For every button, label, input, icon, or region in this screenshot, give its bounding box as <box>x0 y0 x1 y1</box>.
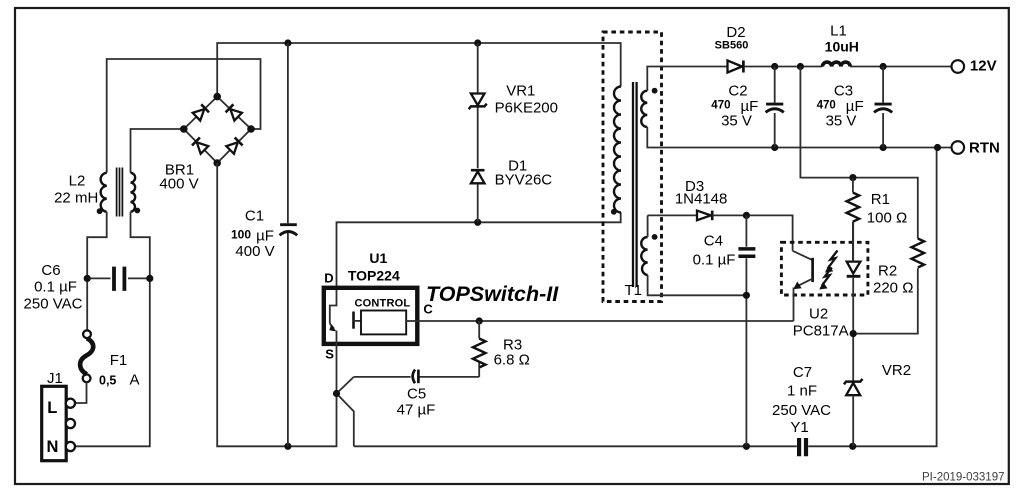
wire: D3 cathode to opto collector <box>712 215 792 250</box>
svg-text:C1: C1 <box>245 208 264 225</box>
capacitor C3 <box>874 67 892 148</box>
terminal 12V <box>952 60 965 73</box>
node: LED cathode / R2 / VR2 junction <box>850 330 857 337</box>
node: C2 top <box>771 63 778 70</box>
svg-text:S: S <box>325 346 334 361</box>
svg-text:U1: U1 <box>369 250 387 266</box>
svg-text:C6: C6 <box>41 262 60 279</box>
svg-text:R2: R2 <box>878 263 897 280</box>
svg-text:470: 470 <box>711 100 730 112</box>
svg-text:C5: C5 <box>407 386 426 403</box>
TOPSwitch U1 <box>324 288 418 344</box>
node: C2 bottom <box>771 144 778 151</box>
wire: RTN rail from top secondary bottom leg <box>647 127 951 148</box>
wire: DC- return from bridge bottom to source rail <box>217 163 337 446</box>
zener VR1 <box>469 43 487 168</box>
transformer T1 <box>603 32 662 302</box>
svg-text:C4: C4 <box>704 233 723 250</box>
wire: top secondary top leg to D2 <box>647 67 727 91</box>
svg-text:35 V: 35 V <box>826 113 857 130</box>
svg-text:SB560: SB560 <box>715 40 749 52</box>
node: L1 / C3 top <box>880 63 887 70</box>
node: R1 top <box>849 174 856 181</box>
connector J1 <box>42 386 75 460</box>
svg-text:D2: D2 <box>726 24 745 41</box>
svg-text:µF: µF <box>256 228 274 245</box>
resistor R3 <box>473 321 486 377</box>
svg-text:47 µF: 47 µF <box>397 402 436 419</box>
common-mode choke L2 <box>97 168 141 217</box>
wire: bias winding top leg through D3 to opto collector <box>648 215 697 237</box>
wire: bias winding bottom leg <box>648 275 747 295</box>
svg-text:N: N <box>47 438 59 456</box>
svg-text:400 V: 400 V <box>159 176 198 193</box>
node: R3 top junction <box>476 317 483 324</box>
svg-text:L: L <box>47 399 57 417</box>
wire: J1 L pin to fuse <box>75 381 87 403</box>
svg-text:PC817A: PC817A <box>793 323 849 340</box>
svg-text:250 VAC: 250 VAC <box>24 296 83 313</box>
capacitor C7 (Y1) <box>799 438 806 456</box>
svg-text:6.8 Ω: 6.8 Ω <box>494 352 530 369</box>
node: C4 bottom / return junction <box>743 292 750 299</box>
node: VR2 bottom on rail <box>849 443 856 450</box>
svg-text:100: 100 <box>231 228 251 242</box>
svg-text:400 V: 400 V <box>235 243 274 260</box>
svg-text:P6KE200: P6KE200 <box>495 100 558 117</box>
svg-text:C7: C7 <box>793 364 812 381</box>
wire: L2 right leg down to C6 right node and N pin <box>75 212 150 447</box>
svg-text:R1: R1 <box>871 191 890 208</box>
capacitor C5 <box>354 370 479 384</box>
svg-text:J1: J1 <box>47 370 63 387</box>
node: S junction <box>333 390 340 397</box>
svg-text:0.1 µF: 0.1 µF <box>34 279 77 296</box>
svg-text:1 nF: 1 nF <box>787 383 817 400</box>
svg-text:CONTROL: CONTROL <box>355 298 411 310</box>
svg-text:PI-2019-033197: PI-2019-033197 <box>922 472 1004 484</box>
wire: control pin C to opto emitter <box>417 320 793 322</box>
svg-text:L1: L1 <box>830 23 847 40</box>
diode D3 <box>697 211 712 221</box>
svg-text:12V: 12V <box>970 58 997 75</box>
diode D2 <box>728 61 744 73</box>
node: bus / VR1 junction <box>474 39 481 46</box>
node: C3 bottom <box>880 144 887 151</box>
wire: L2 left leg down to fuse column <box>87 212 107 330</box>
node: feedback sense tap <box>797 63 804 70</box>
resistor R1 <box>847 178 860 261</box>
svg-text:10uH: 10uH <box>825 39 859 55</box>
bridge rectifier BR1 <box>180 93 255 167</box>
svg-text:470: 470 <box>817 100 836 112</box>
svg-text:VR2: VR2 <box>882 362 911 379</box>
node: secondary return on rail <box>743 443 750 450</box>
capacitor C2 <box>766 67 784 148</box>
svg-text:TOPSwitch-II: TOPSwitch-II <box>426 282 559 306</box>
wire: U1 drain to transformer primary bottom <box>337 213 621 288</box>
svg-text:L2: L2 <box>69 173 86 190</box>
svg-text:A: A <box>130 372 140 389</box>
node: bus / C1 junction <box>284 39 291 46</box>
svg-text:Y1: Y1 <box>790 419 808 436</box>
wire: BR1 right AC vertex to L2 left winding top <box>107 59 261 173</box>
svg-text:0,5: 0,5 <box>99 374 116 388</box>
svg-text:1N4148: 1N4148 <box>675 191 728 208</box>
wire: BR1 left AC vertex to L2 right winding top <box>131 129 184 173</box>
svg-text:35 V: 35 V <box>721 113 752 130</box>
node: C4 top junction <box>743 212 750 219</box>
node: snubber / drain junction <box>474 219 481 226</box>
svg-text:TOP224: TOP224 <box>348 267 400 283</box>
node: RTN / bottom vertical junction <box>934 144 941 151</box>
svg-text:VR1: VR1 <box>506 83 535 100</box>
svg-text:C2: C2 <box>728 83 747 100</box>
resistor R2 <box>853 239 924 334</box>
optocoupler U2 <box>781 222 868 382</box>
diode D1 <box>471 170 485 222</box>
svg-text:U2: U2 <box>809 306 828 323</box>
svg-text:BYV26C: BYV26C <box>495 172 553 189</box>
inductor L1 <box>822 62 850 66</box>
svg-text:T1: T1 <box>624 282 642 299</box>
svg-text:0.1 µF: 0.1 µF <box>693 252 736 269</box>
fuse F1 <box>80 330 93 382</box>
wire: bottom rail right section <box>354 148 937 447</box>
terminal RTN <box>952 141 965 154</box>
wire: source pin S down to rail with bypass jogs <box>336 343 338 446</box>
node: C1 bottom junction <box>284 443 291 450</box>
svg-text:C3: C3 <box>834 83 853 100</box>
capacitor C1 <box>280 43 298 446</box>
svg-text:250 VAC: 250 VAC <box>772 402 831 419</box>
capacitor C4 <box>738 215 755 446</box>
capacitor C6 <box>84 267 154 291</box>
svg-text:220 Ω: 220 Ω <box>873 280 913 297</box>
wire: 12V rail after D2 <box>745 66 952 68</box>
svg-text:100 Ω: 100 Ω <box>867 210 907 227</box>
wire: HV+ top bus from bridge to primary <box>217 43 621 97</box>
svg-text:F1: F1 <box>110 352 128 369</box>
svg-text:RTN: RTN <box>969 140 1000 157</box>
svg-text:D: D <box>324 270 333 285</box>
wire: feedback sense from 12V rail to R1/R2 <box>800 67 917 239</box>
zener VR2 <box>844 379 863 446</box>
svg-text:22 mH: 22 mH <box>54 190 98 207</box>
